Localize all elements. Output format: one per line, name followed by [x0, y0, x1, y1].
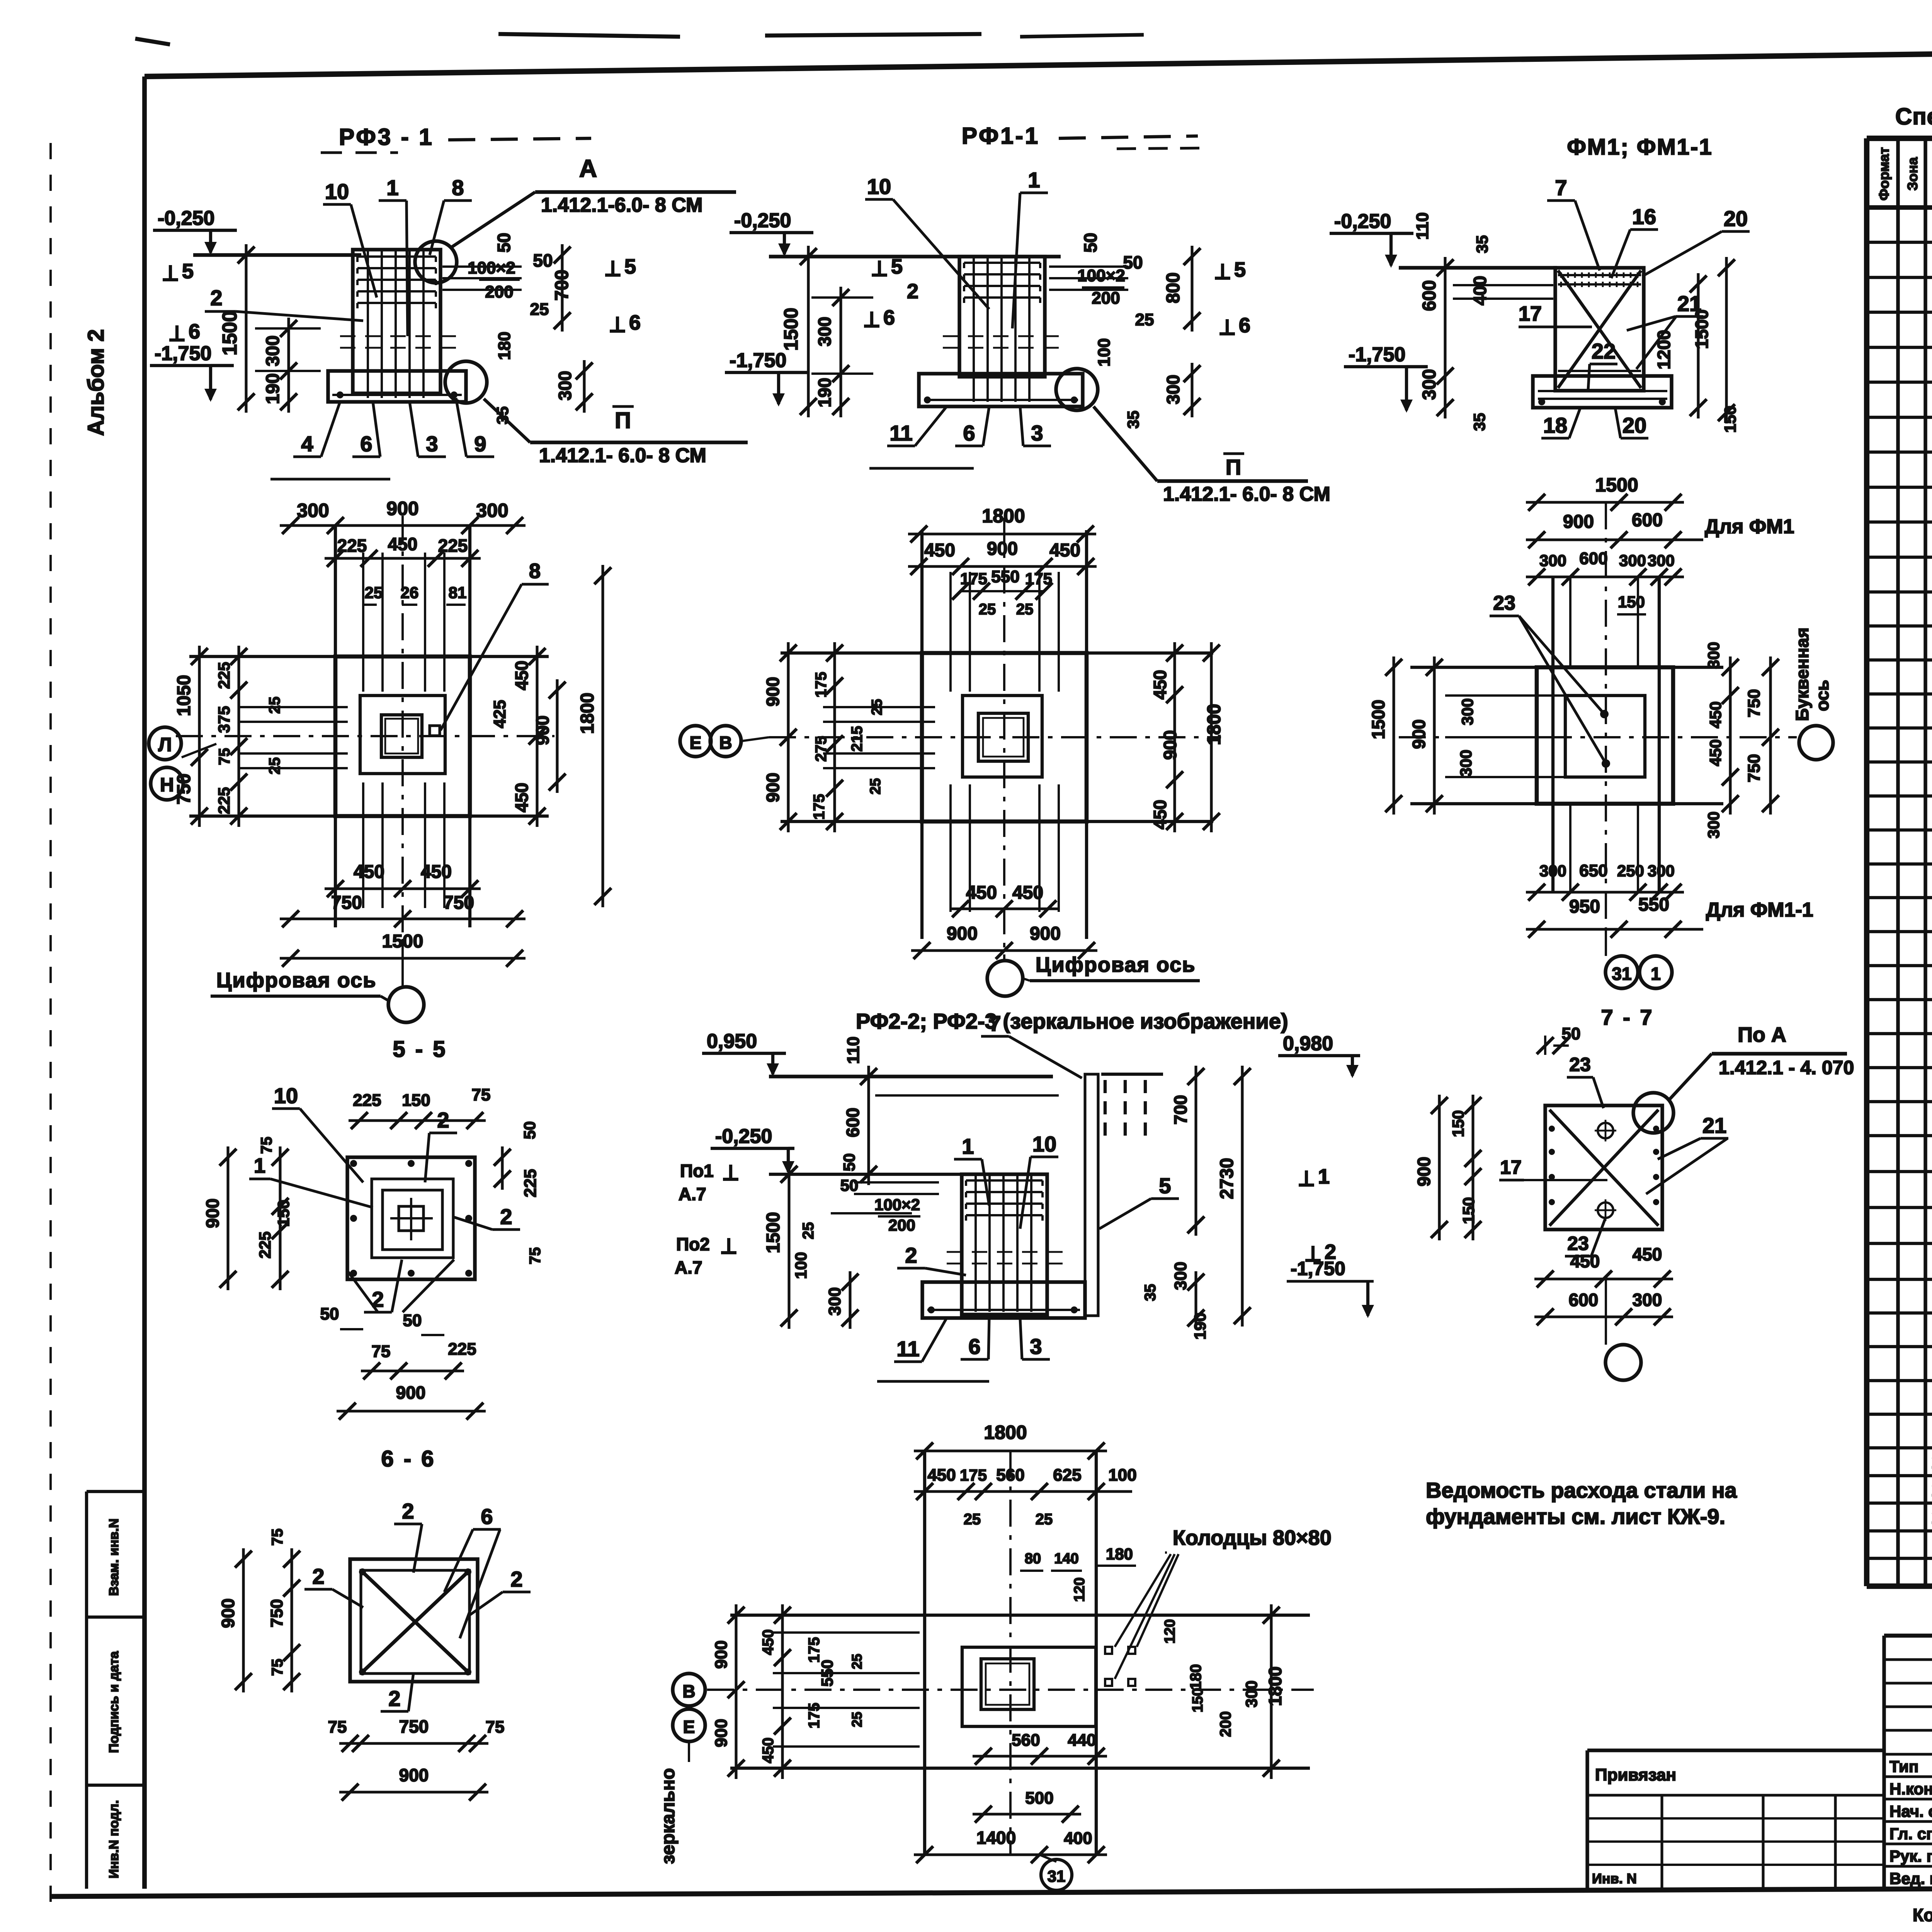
svg-text:6 - 6: 6 - 6: [381, 1446, 435, 1471]
svg-text:600: 600: [1569, 1290, 1599, 1310]
svg-text:35: 35: [493, 406, 512, 425]
svg-text:ФМ1; ФМ1-1: ФМ1; ФМ1-1: [1567, 134, 1713, 160]
svg-text:175: 175: [960, 570, 987, 588]
svg-text:3: 3: [426, 432, 438, 456]
svg-text:900: 900: [712, 1640, 731, 1668]
svg-text:150: 150: [1190, 1688, 1206, 1712]
svg-text:20: 20: [1622, 413, 1646, 437]
svg-text:25: 25: [266, 697, 283, 714]
svg-text:225: 225: [215, 787, 233, 814]
svg-text:900: 900: [1030, 923, 1061, 944]
svg-text:Н.контр.: Н.контр.: [1889, 1780, 1932, 1798]
svg-text:100×2: 100×2: [874, 1196, 920, 1214]
svg-text:2: 2: [388, 1686, 400, 1711]
svg-text:900: 900: [987, 539, 1018, 559]
svg-text:550: 550: [818, 1660, 836, 1687]
svg-text:200: 200: [1217, 1711, 1234, 1737]
svg-text:5 - 5: 5 - 5: [393, 1037, 447, 1062]
svg-text:450: 450: [1706, 701, 1725, 728]
svg-text:175: 175: [811, 794, 828, 820]
svg-text:25: 25: [800, 1222, 817, 1240]
svg-text:25: 25: [1036, 1511, 1053, 1528]
svg-text:50: 50: [1080, 233, 1100, 252]
svg-text:450: 450: [354, 862, 384, 882]
svg-text:фундаменты см. лист КЖ-9.: фундаменты см. лист КЖ-9.: [1426, 1504, 1725, 1529]
svg-text:225: 225: [215, 662, 233, 689]
svg-text:175: 175: [813, 672, 830, 698]
svg-text:Ведомость расхода стали на: Ведомость расхода стали на: [1426, 1478, 1737, 1502]
svg-text:700: 700: [552, 270, 572, 301]
svg-text:Взам. инв.N: Взам. инв.N: [107, 1519, 121, 1596]
svg-text:75: 75: [472, 1085, 491, 1104]
svg-text:Н: Н: [160, 774, 174, 796]
svg-text:190: 190: [263, 373, 283, 404]
svg-text:300: 300: [297, 500, 329, 521]
svg-text:400: 400: [1470, 276, 1490, 306]
svg-text:300: 300: [1539, 862, 1566, 880]
svg-text:-0,250: -0,250: [1334, 210, 1391, 233]
svg-text:1500: 1500: [763, 1212, 784, 1253]
svg-text:110: 110: [1413, 213, 1432, 240]
svg-text:200: 200: [888, 1216, 915, 1234]
svg-text:1: 1: [386, 175, 398, 200]
svg-text:Гл. спец.: Гл. спец.: [1889, 1825, 1932, 1843]
svg-text:80: 80: [1025, 1551, 1041, 1567]
svg-text:-1,750: -1,750: [1291, 1258, 1345, 1279]
svg-text:Цифровая ось: Цифровая ось: [1036, 953, 1196, 976]
svg-text:180: 180: [1106, 1545, 1133, 1563]
svg-text:75: 75: [258, 1137, 275, 1154]
svg-text:35: 35: [1473, 235, 1491, 253]
svg-text:450: 450: [388, 534, 418, 554]
svg-text:450: 450: [1570, 1251, 1600, 1271]
svg-text:550: 550: [991, 567, 1019, 586]
svg-text:440: 440: [1068, 1731, 1096, 1750]
svg-text:600: 600: [1579, 549, 1607, 568]
svg-text:750: 750: [443, 893, 474, 913]
svg-text:РФ1-1: РФ1-1: [962, 123, 1040, 149]
svg-text:450: 450: [1012, 883, 1043, 903]
svg-text:11: 11: [896, 1337, 919, 1361]
svg-text:300: 300: [1539, 551, 1566, 570]
svg-text:Вед. инж.: Вед. инж.: [1889, 1869, 1932, 1888]
svg-text:5: 5: [891, 255, 903, 278]
svg-text:50: 50: [494, 233, 514, 252]
svg-text:1.412.1- 6.0- 8 СМ: 1.412.1- 6.0- 8 СМ: [1163, 483, 1330, 505]
svg-text:Альбом 2: Альбом 2: [83, 329, 109, 436]
svg-text:900: 900: [1409, 719, 1429, 749]
svg-text:81: 81: [449, 583, 467, 602]
svg-text:450: 450: [1049, 540, 1080, 561]
svg-text:23: 23: [1569, 1054, 1591, 1075]
svg-text:175: 175: [960, 1466, 987, 1484]
svg-text:Формат: Формат: [1876, 147, 1892, 201]
svg-text:11: 11: [889, 421, 912, 445]
svg-text:2: 2: [907, 280, 918, 303]
svg-text:7 - 7: 7 - 7: [1601, 1005, 1654, 1029]
svg-text:2730: 2730: [1217, 1158, 1237, 1199]
svg-text:1.412.1- 6.0- 8 СМ: 1.412.1- 6.0- 8 СМ: [539, 444, 706, 467]
svg-text:1: 1: [962, 1134, 974, 1158]
svg-text:25: 25: [266, 757, 283, 775]
svg-text:П: П: [615, 408, 631, 433]
svg-text:6: 6: [883, 306, 895, 329]
svg-text:По1: По1: [680, 1161, 714, 1181]
svg-text:300: 300: [815, 317, 835, 347]
svg-text:50: 50: [320, 1304, 339, 1323]
svg-text:600: 600: [1419, 280, 1440, 311]
svg-text:По А: По А: [1738, 1023, 1786, 1046]
svg-text:200: 200: [1092, 289, 1120, 308]
svg-text:Спецификация элементов монолит: Спецификация элементов монолитных фундам…: [1895, 104, 1932, 129]
svg-text:Инв.N подл.: Инв.N подл.: [107, 1800, 121, 1879]
svg-text:120: 120: [1071, 1577, 1088, 1602]
svg-text:75: 75: [372, 1342, 391, 1361]
svg-text:Зона: Зона: [1905, 157, 1920, 190]
svg-text:5: 5: [1159, 1173, 1171, 1198]
svg-text:16: 16: [1632, 204, 1656, 229]
svg-text:1: 1: [254, 1154, 265, 1177]
svg-text:900: 900: [763, 773, 783, 803]
svg-text:7: 7: [1555, 175, 1567, 200]
svg-text:50: 50: [1123, 252, 1143, 272]
svg-text:450: 450: [512, 783, 532, 813]
svg-text:П: П: [1226, 455, 1241, 479]
svg-text:180: 180: [495, 332, 514, 360]
svg-text:150: 150: [1449, 1110, 1467, 1137]
svg-text:-1,750: -1,750: [730, 349, 786, 372]
svg-text:300: 300: [1648, 551, 1675, 570]
svg-text:1800: 1800: [982, 505, 1025, 527]
svg-text:400: 400: [1064, 1829, 1092, 1848]
svg-text:17: 17: [1519, 302, 1542, 325]
svg-text:625: 625: [1053, 1466, 1081, 1485]
svg-text:Привязан: Привязан: [1595, 1765, 1676, 1784]
svg-text:3: 3: [1031, 421, 1043, 445]
svg-text:25: 25: [530, 300, 549, 319]
svg-text:6: 6: [481, 1504, 493, 1529]
svg-text:190: 190: [1191, 1313, 1209, 1340]
svg-text:1: 1: [1651, 964, 1661, 984]
svg-text:5: 5: [1234, 258, 1246, 281]
svg-text:Л: Л: [158, 734, 172, 755]
svg-text:900: 900: [218, 1599, 238, 1628]
svg-text:25: 25: [365, 583, 383, 602]
svg-text:10: 10: [274, 1083, 298, 1108]
svg-text:425: 425: [490, 700, 509, 728]
svg-text:150: 150: [274, 1200, 293, 1227]
svg-text:450: 450: [760, 1738, 777, 1764]
svg-text:450: 450: [927, 1466, 956, 1485]
svg-text:750: 750: [1745, 689, 1764, 717]
svg-text:-0,250: -0,250: [734, 209, 791, 232]
svg-text:25: 25: [849, 1654, 865, 1669]
svg-text:100×2: 100×2: [1077, 266, 1125, 285]
svg-text:120: 120: [1162, 1619, 1178, 1643]
svg-text:300: 300: [1704, 642, 1723, 669]
svg-text:750: 750: [399, 1716, 429, 1736]
svg-text:Копир.: Копир.: [1913, 1905, 1932, 1925]
svg-text:35: 35: [1470, 413, 1488, 431]
svg-text:900: 900: [712, 1719, 731, 1747]
svg-text:450: 450: [421, 862, 452, 882]
svg-text:300: 300: [555, 371, 575, 401]
svg-text:450: 450: [924, 540, 955, 561]
svg-text:26: 26: [401, 583, 419, 602]
svg-text:225: 225: [448, 1340, 476, 1359]
svg-text:450: 450: [760, 1629, 777, 1655]
svg-text:6: 6: [189, 320, 200, 343]
svg-text:300: 300: [1458, 698, 1476, 725]
svg-text:75: 75: [486, 1718, 505, 1736]
svg-text:100: 100: [1095, 338, 1114, 366]
svg-text:23: 23: [1493, 592, 1515, 614]
svg-text:600: 600: [1632, 510, 1663, 531]
svg-text:А: А: [579, 155, 597, 182]
svg-text:10: 10: [1032, 1132, 1056, 1156]
svg-text:700: 700: [1170, 1095, 1190, 1125]
svg-text:900: 900: [386, 498, 418, 519]
svg-text:300: 300: [1163, 375, 1183, 405]
svg-text:6: 6: [1239, 314, 1250, 337]
svg-text:1800: 1800: [577, 693, 598, 734]
svg-text:По2: По2: [676, 1234, 710, 1254]
svg-text:200: 200: [485, 282, 513, 301]
svg-text:215: 215: [849, 726, 866, 752]
svg-text:2: 2: [312, 1564, 324, 1588]
svg-text:2: 2: [905, 1243, 917, 1267]
svg-text:1.412.1-6.0- 8 СМ: 1.412.1-6.0- 8 СМ: [541, 194, 702, 216]
svg-text:1500: 1500: [1595, 474, 1638, 496]
svg-text:25: 25: [979, 601, 996, 618]
svg-text:450: 450: [1150, 670, 1170, 700]
svg-text:Подпись и дата: Подпись и дата: [107, 1651, 121, 1753]
svg-text:900: 900: [947, 923, 978, 944]
svg-text:25: 25: [867, 778, 884, 794]
svg-text:1800: 1800: [1204, 704, 1225, 745]
svg-text:1500: 1500: [219, 311, 241, 355]
svg-text:275: 275: [813, 736, 830, 762]
svg-text:17: 17: [1500, 1156, 1522, 1178]
svg-text:300: 300: [1457, 750, 1475, 777]
svg-text:300: 300: [1419, 369, 1440, 400]
svg-text:100×2: 100×2: [468, 259, 515, 277]
svg-text:2: 2: [510, 1567, 522, 1591]
svg-text:1050: 1050: [174, 675, 194, 716]
svg-text:Тип: Тип: [1889, 1757, 1918, 1776]
svg-text:225: 225: [256, 1231, 274, 1259]
svg-text:35: 35: [1142, 1284, 1159, 1301]
svg-text:800: 800: [1163, 272, 1184, 303]
svg-text:75: 75: [269, 1529, 286, 1546]
svg-text:зеркально: зеркально: [658, 1768, 679, 1864]
svg-text:9: 9: [474, 432, 486, 456]
svg-text:1.412.1 - 4. 070: 1.412.1 - 4. 070: [1719, 1057, 1854, 1078]
svg-text:Нач. отд.: Нач. отд.: [1889, 1802, 1932, 1820]
svg-text:225: 225: [337, 536, 367, 556]
svg-text:В: В: [719, 733, 732, 753]
svg-text:25: 25: [1016, 601, 1034, 618]
svg-text:А.7: А.7: [679, 1184, 706, 1204]
svg-text:300: 300: [1704, 811, 1723, 838]
svg-text:6: 6: [360, 432, 372, 456]
svg-text:Колодцы 80×80: Колодцы 80×80: [1173, 1526, 1332, 1549]
svg-text:190: 190: [815, 378, 835, 408]
svg-text:Е: Е: [683, 1717, 695, 1737]
svg-text:900: 900: [396, 1383, 426, 1403]
svg-text:950: 950: [1569, 896, 1600, 917]
svg-text:25: 25: [1135, 310, 1154, 329]
svg-text:600: 600: [843, 1108, 863, 1138]
svg-text:300: 300: [1171, 1262, 1190, 1290]
svg-text:75: 75: [216, 748, 233, 765]
svg-text:25: 25: [849, 1712, 865, 1727]
svg-text:5: 5: [182, 260, 194, 283]
svg-text:650: 650: [1579, 861, 1607, 880]
svg-text:6: 6: [968, 1334, 980, 1359]
svg-text:-1,750: -1,750: [1349, 344, 1405, 366]
svg-text:450: 450: [512, 661, 532, 690]
svg-text:2: 2: [500, 1204, 512, 1229]
svg-text:450: 450: [966, 883, 997, 903]
svg-text:8: 8: [529, 560, 541, 583]
svg-text:18: 18: [1543, 413, 1567, 437]
svg-text:10: 10: [867, 174, 891, 199]
svg-text:50: 50: [520, 1121, 539, 1139]
svg-text:300: 300: [1633, 1290, 1662, 1310]
svg-text:750: 750: [267, 1599, 286, 1627]
svg-text:-0,250: -0,250: [715, 1125, 772, 1148]
svg-text:450: 450: [1706, 739, 1725, 766]
svg-text:1500: 1500: [1368, 700, 1388, 739]
svg-text:25: 25: [869, 699, 885, 715]
svg-text:Для ФМ1: Для ФМ1: [1705, 515, 1794, 538]
svg-text:Цифровая ось: Цифровая ось: [216, 969, 376, 992]
svg-text:1800: 1800: [984, 1422, 1027, 1443]
svg-text:Е: Е: [690, 733, 702, 753]
svg-text:10: 10: [325, 179, 349, 204]
svg-text:150: 150: [1721, 406, 1739, 433]
svg-text:6: 6: [963, 421, 975, 445]
svg-text:50: 50: [840, 1153, 858, 1172]
svg-text:Инв. N: Инв. N: [1592, 1871, 1637, 1886]
svg-text:4: 4: [301, 432, 313, 456]
svg-text:225: 225: [521, 1169, 540, 1197]
svg-text:0,950: 0,950: [707, 1030, 757, 1053]
svg-text:900: 900: [399, 1765, 429, 1785]
svg-text:300: 300: [1242, 1680, 1260, 1708]
svg-text:300: 300: [1619, 551, 1646, 570]
svg-text:1400: 1400: [976, 1828, 1016, 1848]
svg-text:2: 2: [402, 1499, 414, 1523]
svg-text:225: 225: [438, 536, 468, 556]
svg-text:-1,750: -1,750: [155, 342, 211, 365]
svg-text:110: 110: [844, 1037, 863, 1064]
svg-text:150: 150: [1618, 593, 1645, 611]
svg-text:750: 750: [1745, 754, 1764, 782]
svg-text:900: 900: [1414, 1157, 1434, 1187]
svg-text:300: 300: [263, 335, 283, 366]
svg-text:7: 7: [989, 1011, 1001, 1036]
svg-text:6: 6: [629, 311, 641, 334]
svg-text:300: 300: [476, 500, 508, 521]
svg-text:175: 175: [806, 1637, 823, 1663]
svg-text:100: 100: [1108, 1466, 1136, 1485]
svg-text:900: 900: [1160, 730, 1180, 760]
svg-text:75: 75: [328, 1718, 347, 1736]
svg-text:75: 75: [527, 1247, 544, 1265]
svg-text:5: 5: [624, 255, 636, 278]
svg-text:375: 375: [215, 706, 233, 733]
svg-text:31: 31: [1048, 1867, 1066, 1885]
svg-text:150: 150: [1459, 1197, 1478, 1224]
svg-text:Рук. гр.: Рук. гр.: [1889, 1847, 1932, 1865]
svg-text:300: 300: [825, 1287, 844, 1315]
svg-text:180: 180: [1187, 1664, 1204, 1690]
svg-text:450: 450: [1150, 800, 1170, 830]
svg-text:900: 900: [532, 716, 553, 745]
svg-text:1500: 1500: [780, 308, 802, 350]
svg-text:Буквенная: Буквенная: [1792, 628, 1812, 721]
svg-text:550: 550: [1638, 895, 1669, 915]
svg-text:250: 250: [1617, 862, 1644, 880]
svg-text:РФ2-2; РФ2-3 (зеркальное изоб: РФ2-2; РФ2-3 (зеркальное изображение): [856, 1009, 1288, 1033]
svg-text:750: 750: [331, 893, 362, 913]
svg-text:50: 50: [840, 1176, 859, 1194]
svg-text:А.7: А.7: [675, 1257, 702, 1277]
svg-text:560: 560: [1012, 1731, 1040, 1750]
svg-text:21: 21: [1702, 1113, 1726, 1138]
svg-text:500: 500: [1025, 1789, 1053, 1808]
svg-text:560: 560: [996, 1466, 1024, 1485]
svg-text:0,980: 0,980: [1283, 1032, 1333, 1055]
svg-text:22: 22: [1592, 339, 1616, 363]
svg-text:1: 1: [1318, 1165, 1330, 1188]
svg-text:В: В: [682, 1681, 695, 1701]
svg-text:900: 900: [763, 677, 783, 707]
svg-text:150: 150: [402, 1091, 430, 1110]
svg-text:140: 140: [1054, 1551, 1078, 1567]
svg-text:50: 50: [403, 1311, 422, 1330]
svg-text:75: 75: [269, 1659, 286, 1676]
svg-text:35: 35: [1124, 411, 1142, 429]
svg-text:1200: 1200: [1654, 330, 1674, 369]
svg-text:175: 175: [806, 1703, 823, 1729]
svg-text:1: 1: [1028, 168, 1040, 192]
svg-text:1800: 1800: [1265, 1667, 1285, 1706]
svg-text:31: 31: [1612, 964, 1631, 984]
svg-text:8: 8: [452, 175, 464, 200]
svg-text:100: 100: [792, 1252, 810, 1279]
svg-text:900: 900: [1563, 512, 1594, 532]
svg-text:50: 50: [533, 250, 553, 270]
svg-text:1500: 1500: [1692, 310, 1712, 349]
svg-text:900: 900: [202, 1199, 223, 1228]
svg-text:25: 25: [964, 1511, 981, 1528]
svg-text:300: 300: [1648, 862, 1675, 880]
svg-text:Для ФМ1-1: Для ФМ1-1: [1706, 899, 1813, 921]
svg-text:3: 3: [1030, 1334, 1042, 1359]
svg-text:ось: ось: [1812, 680, 1832, 711]
svg-text:РФ3 - 1: РФ3 - 1: [339, 124, 434, 150]
svg-text:-0,250: -0,250: [158, 207, 214, 230]
svg-text:20: 20: [1724, 206, 1748, 231]
svg-text:450: 450: [1633, 1244, 1662, 1264]
svg-text:2: 2: [210, 286, 222, 310]
svg-text:225: 225: [353, 1091, 381, 1110]
